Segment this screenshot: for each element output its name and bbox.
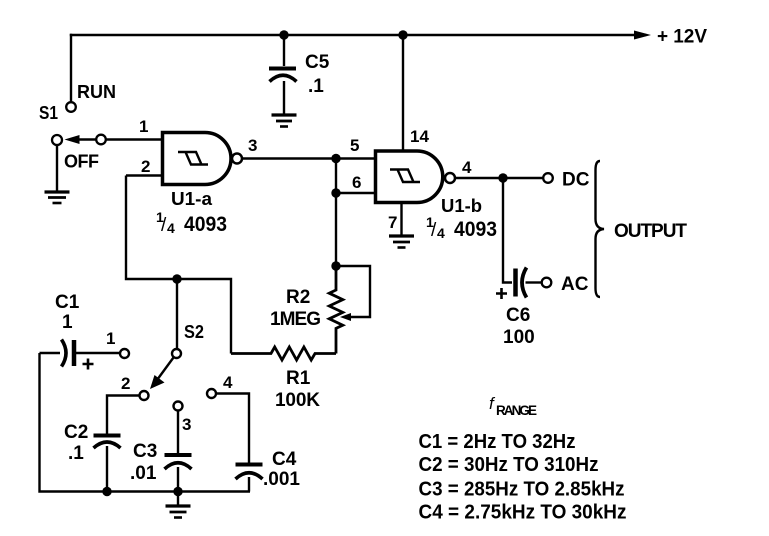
wire U1-a pin 3 output to pins 5/6 bbox=[242, 157, 375, 159]
svg-text:S1: S1 bbox=[39, 103, 58, 123]
wire U1-b pin 7 to ground bbox=[400, 204, 402, 235]
svg-text:.001: .001 bbox=[263, 469, 300, 490]
svg-text:C4: C4 bbox=[272, 449, 297, 470]
switch S1 wiper arrow bbox=[79, 138, 96, 140]
S2 position 2 terminal bbox=[140, 391, 149, 400]
svg-text:100K: 100K bbox=[275, 390, 320, 411]
capacitor C6 bbox=[513, 269, 518, 297]
svg-text:4093: 4093 bbox=[454, 218, 497, 241]
DC terminal bbox=[543, 173, 553, 183]
svg-text:U1-b: U1-b bbox=[441, 196, 482, 216]
S2 position 4 terminal bbox=[207, 389, 216, 398]
U1-b output bubble bbox=[445, 173, 455, 183]
svg-text:RUN: RUN bbox=[77, 82, 116, 102]
svg-text:C5: C5 bbox=[305, 52, 330, 73]
node R2 top junction bbox=[331, 261, 340, 270]
svg-text:C3: C3 bbox=[133, 441, 157, 462]
ground below C5 bbox=[272, 115, 297, 127]
wire U1-a pin 2 lead bbox=[126, 174, 162, 176]
svg-text:C2 = 30Hz TO 310Hz: C2 = 30Hz TO 310Hz bbox=[419, 454, 599, 476]
capacitor C3 bbox=[165, 453, 192, 457]
S2 position 1 terminal bbox=[120, 349, 129, 358]
resistor R1 bbox=[231, 347, 336, 360]
op-amp U1-a NAND gate body bbox=[163, 133, 232, 185]
svg-text:C6: C6 bbox=[506, 305, 530, 326]
node C3 to rail bbox=[173, 487, 182, 496]
svg-text:1: 1 bbox=[106, 329, 115, 348]
svg-text:DC: DC bbox=[562, 170, 590, 191]
op-amp U1-b NAND gate body bbox=[376, 151, 443, 203]
wire S1 wiper to U1-a pin 1 bbox=[106, 138, 162, 140]
ground below C3 bbox=[166, 506, 191, 518]
ground below S1 bbox=[45, 192, 70, 203]
svg-text:C3 = 285Hz TO 2.85kHz: C3 = 285Hz TO 2.85kHz bbox=[419, 479, 625, 501]
plus sign (C6) bbox=[496, 288, 507, 299]
wire rail to ground bbox=[177, 492, 179, 506]
svg-text:7: 7 bbox=[388, 213, 397, 232]
svg-text:3: 3 bbox=[182, 415, 191, 434]
plus sign (C1) bbox=[83, 359, 94, 370]
wire S2 pos 4 to C4 bbox=[216, 394, 249, 463]
svg-text:+ 12V: + 12V bbox=[657, 27, 707, 48]
svg-text:100: 100 bbox=[503, 327, 535, 348]
capacitor C2 bbox=[94, 434, 121, 438]
svg-text:.1: .1 bbox=[68, 443, 84, 464]
S2 position 3 terminal bbox=[174, 402, 183, 411]
R2 wiper arrowhead bbox=[340, 313, 351, 321]
svg-text:4: 4 bbox=[462, 158, 472, 177]
svg-text:6: 6 bbox=[352, 173, 361, 192]
svg-text:C1 = 2Hz TO 32Hz: C1 = 2Hz TO 32Hz bbox=[419, 431, 576, 453]
svg-text:AC: AC bbox=[561, 274, 589, 295]
capacitor C1 bbox=[40, 352, 61, 354]
switch S1 OFF terminal bbox=[52, 135, 62, 145]
node power rail junction at C5 bbox=[279, 30, 288, 39]
svg-text:.1: .1 bbox=[308, 76, 324, 97]
node output junction bbox=[498, 173, 507, 182]
U1-a schmitt trigger symbol bbox=[178, 152, 208, 165]
wire C1 down left side to bottom rail bbox=[40, 353, 251, 492]
svg-text:4: 4 bbox=[437, 225, 445, 241]
svg-text:OUTPUT: OUTPUT bbox=[614, 221, 687, 242]
wire junction to U1-b pin 6 bbox=[336, 159, 375, 194]
+12V arrowhead bbox=[634, 31, 651, 40]
U1-b schmitt trigger symbol bbox=[390, 170, 420, 183]
wire U1-a pin 2 net down and across bbox=[126, 176, 231, 354]
wire output junction down to C6 bbox=[503, 178, 512, 283]
capacitor C5 bbox=[283, 35, 285, 66]
wire U1-b pin 14 from rail bbox=[402, 35, 404, 151]
svg-text:R1: R1 bbox=[286, 368, 311, 389]
svg-text:1: 1 bbox=[62, 312, 73, 333]
switch S1 wiper terminal bbox=[96, 135, 106, 145]
output brace bbox=[596, 161, 605, 297]
wire U1-b pin 4 output bbox=[455, 177, 544, 179]
svg-text:2: 2 bbox=[121, 374, 130, 393]
wire pins 5/6 down to R2 top bbox=[335, 193, 337, 266]
svg-text:1MEG: 1MEG bbox=[270, 309, 321, 330]
AC terminal bbox=[542, 278, 552, 288]
svg-text:4: 4 bbox=[223, 373, 233, 392]
switch S1 RUN terminal bbox=[66, 102, 76, 112]
svg-text:OFF: OFF bbox=[64, 152, 99, 172]
wire S1 RUN riser bbox=[70, 35, 72, 101]
svg-text:4: 4 bbox=[167, 220, 175, 236]
node junction pin 6 bbox=[331, 188, 340, 197]
switch S2 wiper arm bbox=[157, 358, 174, 381]
svg-text:C2: C2 bbox=[64, 422, 88, 443]
R2 wiper loop wire bbox=[336, 266, 370, 317]
wire S2 pos 3 to C3 bbox=[177, 411, 179, 454]
wire junction down to S2 pole bbox=[176, 279, 178, 348]
svg-text:2: 2 bbox=[141, 157, 150, 176]
wire +12V power rail bbox=[71, 34, 645, 36]
svg-text:RANGE: RANGE bbox=[496, 403, 537, 418]
svg-text:U1-a: U1-a bbox=[171, 189, 213, 209]
resistor R2 potentiometer bbox=[329, 266, 343, 354]
node junction above S2 bbox=[172, 274, 181, 283]
svg-text:S2: S2 bbox=[184, 322, 204, 342]
capacitor C4 bbox=[236, 463, 263, 467]
U1-a output bubble bbox=[232, 154, 242, 164]
node junction pin 5 bbox=[331, 154, 340, 163]
svg-text:14: 14 bbox=[410, 127, 429, 146]
wire S2 pos 2 to C2 bbox=[107, 396, 140, 435]
svg-text:5: 5 bbox=[350, 136, 359, 155]
svg-text:.01: .01 bbox=[130, 463, 157, 484]
svg-text:C1: C1 bbox=[55, 292, 80, 313]
svg-text:3: 3 bbox=[248, 136, 257, 155]
ground below U1-b pin 7 bbox=[389, 236, 414, 248]
svg-text:1: 1 bbox=[139, 117, 148, 136]
svg-text:R2: R2 bbox=[286, 287, 310, 308]
node power rail junction at pin 14 bbox=[398, 30, 407, 39]
svg-text:C4 = 2.75kHz TO 30kHz: C4 = 2.75kHz TO 30kHz bbox=[419, 502, 627, 524]
wire S1 to ground bbox=[56, 145, 58, 191]
svg-text:4093: 4093 bbox=[184, 213, 227, 236]
node C2 to rail bbox=[102, 487, 111, 496]
switch S2 pole terminal bbox=[172, 349, 181, 358]
